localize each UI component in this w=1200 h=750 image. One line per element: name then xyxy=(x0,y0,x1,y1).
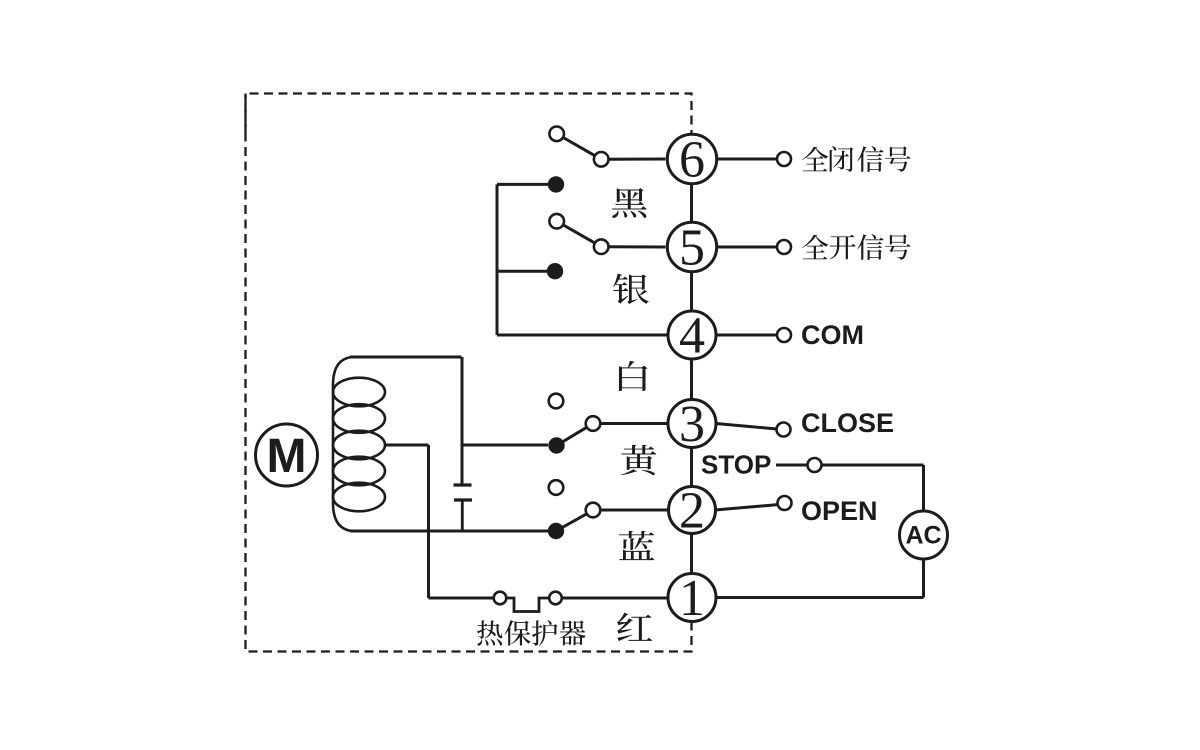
wire: S2 pivot to terminal 2 xyxy=(600,509,668,512)
wire: STOP contact to AC branch xyxy=(822,464,924,467)
label: 全闭信号 (fully closed signal) xyxy=(802,146,911,172)
contact: STOP xyxy=(808,458,822,472)
wire: thermal protector to terminal 1 xyxy=(562,597,668,600)
label: silver wire 银 xyxy=(613,274,649,305)
wire: AC return to terminal 1 xyxy=(716,596,924,599)
switch S3 blade xyxy=(557,427,587,445)
label: thermal protector 热保护器 xyxy=(477,620,586,646)
contact: COM xyxy=(777,328,791,342)
svg-text:OPEN: OPEN xyxy=(801,496,878,526)
contact: OPEN xyxy=(778,496,792,510)
switch S2 pivot xyxy=(586,503,601,518)
motor winding L1 (coil) xyxy=(333,357,385,531)
wire: AC source down xyxy=(922,559,925,598)
wire: terminal 2 to OPEN contact xyxy=(715,505,778,510)
wire: capacitor branch vertical (node K) xyxy=(461,357,464,484)
terminal 3 xyxy=(668,396,716,453)
switch S6 blade xyxy=(563,137,595,155)
terminal 5 xyxy=(667,219,716,276)
contact: CLOSE xyxy=(777,423,791,437)
terminal 1 xyxy=(668,570,716,627)
label: white wire 白 xyxy=(619,361,648,391)
wire: S5 pivot to terminal 5 xyxy=(609,245,666,248)
switch S6 lower contact (closed) xyxy=(548,176,564,192)
wire: terminal 4 to COM contact xyxy=(716,334,778,337)
terminal 6 xyxy=(667,131,716,188)
svg-text:CLOSE: CLOSE xyxy=(801,408,894,438)
wire: terminal 5 to signal contact xyxy=(716,246,777,249)
enclosure: actuator dashed boundary box xyxy=(246,94,692,652)
switch S5 blade xyxy=(563,225,595,243)
wire: centre tap down to thermal protector xyxy=(427,445,430,598)
label: red wire 红 xyxy=(617,613,652,642)
switch S5 lower contact (closed) xyxy=(547,263,563,279)
contact: full-close signal xyxy=(777,152,791,166)
wire: rail vertical xyxy=(496,184,499,335)
wire: coil bottom to switch S2 contact xyxy=(350,530,548,533)
switch S5 upper contact xyxy=(549,214,564,229)
label: black wire 黑 xyxy=(612,188,647,218)
thermal protector element xyxy=(507,598,550,612)
switch S2 lower contact (closed) xyxy=(548,523,564,539)
svg-text:STOP: STOP xyxy=(701,450,771,480)
wire: S3 pivot to terminal 3 xyxy=(600,422,667,425)
contact: full-open signal xyxy=(777,240,791,254)
capacitor C1 xyxy=(454,485,473,531)
svg-text:5: 5 xyxy=(679,219,705,276)
switch S3 pivot xyxy=(586,416,601,431)
svg-text:6: 6 xyxy=(679,131,705,188)
label: yellow wire 黄 xyxy=(621,445,656,475)
svg-text:M: M xyxy=(267,430,307,483)
label: 全开信号 (fully open signal) xyxy=(802,234,911,260)
wire: S6 pivot to terminal 6 xyxy=(609,158,666,161)
wire: terminal 3 to CLOSE contact xyxy=(716,424,777,430)
wire: S6 contact to rail xyxy=(497,183,548,186)
switch S2 upper contact (open) xyxy=(549,480,564,495)
svg-text:4: 4 xyxy=(679,307,705,364)
wire: rail to terminal 4 xyxy=(497,334,667,337)
wire: STOP text to STOP contact xyxy=(776,464,808,467)
thermal protector right terminal xyxy=(549,592,562,605)
wire: AC branch down to AC source xyxy=(922,465,925,511)
svg-text:1: 1 xyxy=(679,570,705,627)
label: blue wire 蓝 xyxy=(619,531,654,560)
wire: coil top to capacitor branch xyxy=(350,356,462,359)
switch S6 pivot xyxy=(594,152,609,167)
motor M xyxy=(256,424,318,486)
terminal 2 xyxy=(669,482,716,539)
wire: coil centre tap xyxy=(386,444,429,447)
wire: S5 contact to rail xyxy=(497,270,548,273)
switch S6 upper contact xyxy=(549,127,564,142)
wire: terminal strip bus xyxy=(690,159,693,598)
svg-text:3: 3 xyxy=(679,396,705,453)
switch S3 lower contact (closed) xyxy=(548,437,564,453)
switch S5 pivot xyxy=(594,239,609,254)
switch S2 blade xyxy=(556,514,587,531)
svg-text:COM: COM xyxy=(801,320,864,350)
wire: terminal 6 to signal contact xyxy=(716,158,777,161)
wire: to thermal protector xyxy=(429,597,494,600)
svg-text:2: 2 xyxy=(679,482,705,539)
thermal protector left terminal xyxy=(494,592,507,605)
AC power source xyxy=(900,511,948,559)
wire: node K to switch S3 contact xyxy=(462,444,548,447)
switch S3 upper contact (open) xyxy=(549,394,564,409)
terminal 4 xyxy=(668,307,716,364)
svg-text:AC: AC xyxy=(905,522,941,550)
